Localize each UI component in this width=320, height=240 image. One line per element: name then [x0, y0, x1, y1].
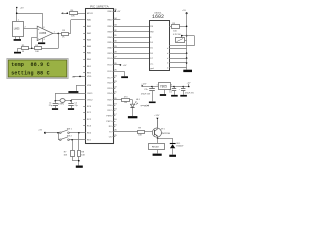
svg-text:d: d	[167, 58, 168, 60]
crystal X1 4MHz	[58, 99, 65, 106]
power +5V node (PIC VDD pin40)	[115, 10, 121, 13]
ground (PIC VSS)	[68, 91, 78, 93]
wire +5V to switches	[45, 132, 60, 134]
ground (7805)	[160, 94, 166, 96]
wire LM35 ground pins	[16, 37, 20, 39]
wire +12V to regulator	[143, 86, 158, 88]
node C5 junction	[182, 86, 184, 88]
svg-text:D7: D7	[150, 58, 152, 60]
wire +5V to LM35 and opamp rail	[17, 8, 43, 28]
wire R3 to PIC pin RA0	[68, 20, 86, 34]
wire bus PIC to LCD (7 lines)	[113, 27, 150, 59]
svg-text:22p: 22p	[49, 105, 52, 107]
svg-text:MCLR: MCLR	[87, 13, 93, 15]
ground (LED)	[128, 116, 137, 118]
relay K1 coil	[149, 144, 165, 154]
svg-text:d: d	[167, 67, 168, 69]
svg-text:0.1: 0.1	[169, 92, 172, 94]
wire PIC to R9	[113, 131, 138, 133]
wire LCD pin to R5	[169, 26, 171, 28]
wire PIC pin to ground (right)	[113, 71, 125, 76]
svg-text:470uF 25V: 470uF 25V	[185, 92, 195, 94]
wire +12V to collector	[157, 119, 159, 128]
potentiometer RV1 (LCD contrast)	[173, 34, 185, 43]
ground (PIC right pin)	[121, 76, 128, 78]
wire crystal net	[55, 100, 71, 102]
wire emitter to relay and diode	[158, 138, 173, 143]
svg-text:-: -	[38, 36, 39, 40]
wire R2 to junction	[28, 48, 35, 50]
wire R5 to +5V rail	[179, 26, 186, 28]
wire op-amp output	[53, 33, 61, 35]
svg-text:10K: 10K	[138, 134, 142, 136]
wire pot right terminal to rail	[185, 40, 187, 42]
resistor R7 pulldown	[64, 140, 75, 161]
svg-text:+5V: +5V	[20, 8, 24, 10]
svg-text:d: d	[167, 63, 168, 65]
svg-text:D6: D6	[150, 53, 152, 55]
node MCLR pullup junction	[67, 12, 69, 14]
ground (C3)	[149, 102, 156, 104]
ground (relay)	[153, 154, 162, 156]
microcontroller U1 PIC16F877A	[83, 4, 117, 143]
wire PIC pin40 +5V stub	[113, 11, 116, 13]
ground (C2)	[68, 108, 74, 110]
LCD screen display	[7, 58, 68, 78]
LED HL1	[130, 99, 149, 107]
wire feedback from output down	[42, 33, 59, 48]
capacitor C1	[49, 101, 58, 108]
resistor R4 MCLR pullup	[70, 10, 78, 17]
svg-text:10K: 10K	[35, 51, 39, 53]
switch SW1	[59, 129, 72, 134]
wire resistor commons	[72, 161, 79, 166]
power +12V net label	[144, 106, 150, 108]
resistor R6 (LED)	[122, 97, 130, 105]
svg-text:10K: 10K	[71, 15, 75, 17]
node junctions on LCD right rail	[186, 26, 188, 64]
svg-text:470uF 25V: 470uF 25V	[141, 94, 151, 96]
wire SW2 to PIC RD1	[69, 139, 86, 141]
wire R4 to PIC MCLR pin	[77, 13, 86, 15]
svg-text:22p: 22p	[75, 105, 78, 107]
power +5V node (buttons)	[38, 130, 46, 134]
wire OSC2 to crystal	[71, 100, 86, 101]
svg-text:8: 8	[43, 27, 44, 29]
wire SW1 to PIC RD0	[69, 132, 86, 134]
svg-text:+: +	[38, 27, 40, 31]
wire op-amp V- pin to ground	[42, 38, 44, 42]
wire OSC1 to crystal	[55, 93, 86, 101]
svg-text:10K: 10K	[81, 155, 85, 157]
node op-amp output junction	[58, 33, 60, 35]
resistor R2 (feedback)	[35, 45, 42, 53]
svg-text:1602: 1602	[152, 14, 164, 20]
ground (C5)	[180, 95, 187, 97]
svg-text:temp 88.9 C: temp 88.9 C	[11, 62, 50, 68]
svg-text:2: 2	[25, 27, 26, 29]
wire PIC VSS to ground	[76, 85, 86, 91]
resistor R1 (to ground)	[22, 45, 29, 53]
capacitor C3 470uF	[141, 87, 155, 102]
svg-text:PSP1: PSP1	[106, 121, 112, 123]
wire R9 to base	[144, 131, 155, 133]
wire pot top terminal loop to LCD VEE	[169, 36, 195, 46]
wire +5V vertical rail (LCD right)	[186, 13, 188, 69]
wire to SW2	[58, 133, 60, 140]
wire regulator output rail	[170, 86, 189, 88]
svg-text:vss: vss	[150, 63, 153, 65]
op-amp U3 LM358	[37, 26, 54, 41]
wire LM35 output to op-amp non-inverting input	[24, 27, 38, 29]
wire PIC VDD to +5V	[73, 76, 87, 78]
node feedback divider junction	[31, 47, 33, 49]
node C3 junction	[151, 86, 153, 88]
svg-text:RW: RW	[150, 31, 153, 33]
node emitter junction	[157, 138, 159, 140]
power +5V arrow (MCLR pullup)	[61, 12, 67, 14]
wire LED to ground	[132, 108, 134, 116]
node pulldown junction	[78, 160, 80, 162]
svg-text:RELAY: RELAY	[152, 146, 160, 149]
node SW1/R8 junction	[78, 132, 80, 134]
resistor R5 (LCD backlight)	[172, 23, 180, 33]
resistor R3 (op-amp output to RA0)	[62, 30, 69, 39]
svg-text:4.7K 5W: 4.7K 5W	[173, 34, 181, 36]
capacitor C5 470uF	[179, 87, 195, 95]
svg-text:+5V: +5V	[38, 130, 42, 132]
svg-text:10K: 10K	[64, 155, 68, 157]
svg-text:LM358: LM358	[39, 33, 47, 35]
svg-text:SW 2: SW 2	[67, 136, 73, 138]
node switch feed junction	[57, 132, 59, 134]
wire PIC pin34 stub	[113, 19, 121, 21]
svg-text:gnd: gnd	[150, 68, 153, 70]
svg-text:VSS: VSS	[87, 85, 92, 87]
wire R6 to LED	[130, 100, 133, 105]
svg-text:+12V: +12V	[144, 106, 150, 108]
svg-text:C1: C1	[49, 102, 51, 104]
ground (C1)	[52, 108, 58, 110]
ground (buttons)	[76, 166, 83, 168]
LCD module DS1 1602	[150, 13, 170, 71]
voltage regulator U4 7805	[157, 83, 172, 94]
svg-text:1: 1	[18, 19, 19, 21]
svg-text:VDD: VDD	[87, 76, 92, 78]
svg-text:C2: C2	[75, 102, 77, 104]
wire junction to inverting input	[32, 37, 38, 48]
transistor VT1 2N2222	[152, 119, 170, 138]
ground (diode)	[169, 155, 176, 157]
node RW net	[120, 64, 127, 67]
power +5V node (sensor rail)	[16, 7, 24, 10]
svg-text:+5V: +5V	[182, 10, 186, 12]
node crystal left	[55, 100, 57, 102]
node VDD junction	[79, 76, 81, 78]
wire R1 to ground	[18, 48, 22, 52]
wire PIC RW net stub	[113, 64, 121, 66]
wire LCD data pins to ground rail	[169, 49, 187, 68]
node SW2/R7 junction	[71, 139, 73, 141]
ground (C4)	[171, 95, 178, 97]
resistor R9 (base)	[138, 128, 145, 137]
power +5V output node	[187, 83, 191, 88]
capacitor C4 0.1uF	[169, 87, 176, 95]
svg-text:1: 1	[54, 31, 55, 33]
svg-text:4 MHz: 4 MHz	[58, 104, 64, 106]
svg-text:setting 88 C: setting 88 C	[11, 70, 50, 76]
ground (op-amp V-)	[38, 42, 45, 44]
power +5V label (PIC VDD)	[72, 76, 76, 78]
switch SW2	[59, 136, 72, 141]
power +5V node (LCD rail)	[182, 10, 188, 14]
svg-text:OSC1: OSC1	[87, 93, 93, 95]
ground (LCD right rail)	[183, 70, 192, 72]
node junction at LM35 top	[16, 12, 18, 14]
svg-text:+12V: +12V	[154, 115, 160, 117]
svg-text:D5: D5	[150, 48, 152, 50]
svg-text:PIC 16F877A: PIC 16F877A	[90, 4, 110, 8]
svg-text:7805: 7805	[160, 85, 167, 89]
wire PIC to R6	[113, 99, 122, 101]
svg-text:2N2222A: 2N2222A	[161, 132, 170, 135]
power +12V input node	[141, 84, 147, 87]
node crystal right	[70, 100, 72, 102]
ground (LM35)	[14, 39, 21, 41]
node pot top terminal	[181, 35, 183, 37]
ground (R1)	[14, 52, 21, 54]
diode VD1 1N4007	[170, 143, 185, 154]
temperature sensor U2 LM35	[13, 19, 24, 36]
power +12V node (relay)	[154, 115, 160, 120]
resistor R8 pulldown	[78, 133, 86, 161]
svg-text:1N4007: 1N4007	[176, 146, 184, 148]
node C4 junction	[173, 86, 175, 88]
svg-text:SW 1: SW 1	[67, 129, 73, 131]
svg-text:+5V: +5V	[123, 65, 127, 67]
capacitor C2	[68, 101, 77, 108]
svg-text:d: d	[167, 53, 168, 55]
svg-text:+12V: +12V	[141, 84, 147, 86]
svg-text:LM35: LM35	[14, 28, 20, 30]
svg-text:1: 1	[157, 85, 158, 87]
svg-text:d: d	[167, 48, 168, 50]
svg-text:PSP0: PSP0	[106, 116, 112, 118]
svg-text:OSC2: OSC2	[87, 100, 93, 102]
svg-text:+5V: +5V	[117, 11, 121, 13]
